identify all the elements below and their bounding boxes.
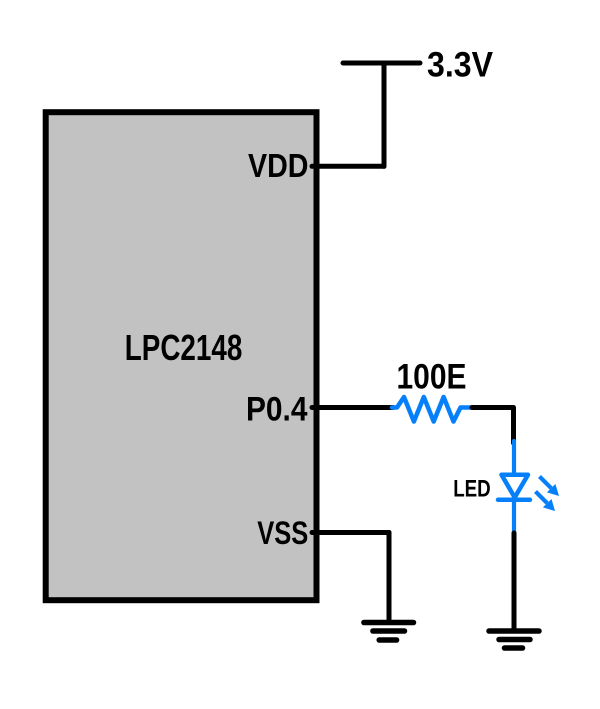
svg-text:VDD: VDD xyxy=(248,147,309,184)
ground GND1 (VSS) xyxy=(364,623,414,641)
wire P0.4 to resistor xyxy=(312,405,393,410)
ground GND2 (LED) xyxy=(489,631,539,648)
wire corner down to LED xyxy=(511,408,516,444)
LED D1 cathode lead xyxy=(512,500,516,534)
svg-text:VSS: VSS xyxy=(257,514,308,551)
IC U1 LPC2148 body xyxy=(46,112,317,600)
LED light arrow 1 xyxy=(540,477,560,497)
wire LED to ground xyxy=(512,533,517,629)
wire VSS pin xyxy=(312,530,389,535)
svg-text:100E: 100E xyxy=(397,357,467,396)
LED D1 anode lead xyxy=(512,441,516,474)
resistor R1 100E xyxy=(392,397,471,422)
wire VDD pin to riser xyxy=(312,164,384,169)
svg-text:3.3V: 3.3V xyxy=(427,46,494,85)
LED light arrow 2 xyxy=(536,492,556,512)
LED D1 triangle xyxy=(502,475,529,498)
LED D1 cathode bar xyxy=(498,498,530,503)
svg-text:P0.4: P0.4 xyxy=(246,390,308,428)
wire resistor to corner xyxy=(472,405,513,410)
svg-text:LPC2148: LPC2148 xyxy=(125,327,243,368)
wire VSS down to ground xyxy=(387,533,392,621)
svg-text:LED: LED xyxy=(453,475,491,502)
power rail 3.3V bar xyxy=(343,61,420,66)
wire riser to 3.3V rail xyxy=(382,63,387,166)
